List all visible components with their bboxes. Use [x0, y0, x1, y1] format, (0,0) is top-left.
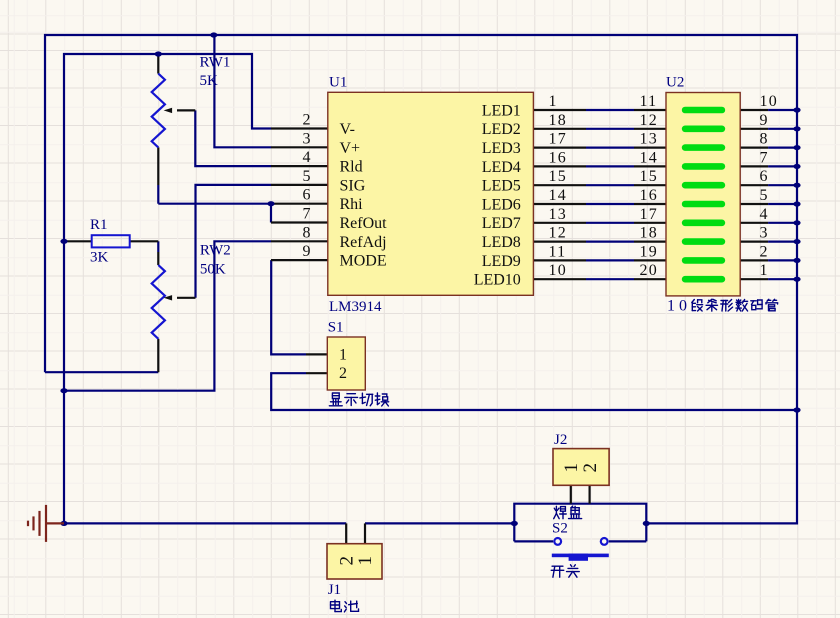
svg-text:LED1: LED1: [482, 102, 521, 119]
svg-text:10: 10: [667, 298, 691, 315]
svg-text:LED3: LED3: [482, 140, 521, 157]
svg-text:4: 4: [760, 206, 769, 223]
svg-text:LED10: LED10: [474, 272, 521, 289]
svg-text:V+: V+: [340, 140, 361, 157]
svg-text:15: 15: [640, 168, 658, 185]
svg-text:18: 18: [640, 225, 658, 242]
svg-text:U1: U1: [329, 75, 347, 91]
svg-text:RW2: RW2: [200, 243, 231, 259]
svg-text:6: 6: [760, 168, 769, 185]
svg-text:7: 7: [303, 206, 311, 223]
svg-text:1: 1: [760, 262, 769, 279]
svg-text:LED6: LED6: [482, 196, 521, 213]
svg-text:2: 2: [339, 365, 347, 382]
svg-text:2: 2: [760, 243, 769, 260]
svg-text:R1: R1: [90, 217, 108, 233]
svg-text:1: 1: [355, 556, 376, 566]
svg-text:5: 5: [303, 168, 311, 185]
svg-text:11: 11: [549, 243, 567, 260]
svg-text:7: 7: [760, 149, 769, 166]
svg-text:19: 19: [640, 243, 658, 260]
svg-text:13: 13: [640, 131, 658, 148]
svg-text:9: 9: [760, 112, 769, 129]
svg-text:10: 10: [760, 93, 778, 110]
svg-text:14: 14: [640, 149, 658, 166]
svg-text:Rhi: Rhi: [340, 196, 364, 213]
svg-text:16: 16: [549, 149, 567, 166]
svg-text:LED2: LED2: [482, 121, 521, 138]
svg-text:3: 3: [760, 225, 769, 242]
svg-text:10: 10: [549, 262, 567, 279]
svg-text:1: 1: [549, 93, 558, 110]
svg-text:LED7: LED7: [482, 215, 521, 232]
svg-text:18: 18: [549, 112, 567, 129]
svg-text:9: 9: [303, 243, 311, 260]
svg-text:S2: S2: [552, 521, 568, 537]
svg-text:RefAdj: RefAdj: [340, 234, 387, 251]
svg-text:8: 8: [303, 224, 311, 241]
svg-text:LM3914: LM3914: [329, 299, 382, 315]
svg-text:LED4: LED4: [482, 159, 521, 176]
svg-text:J1: J1: [328, 582, 341, 598]
svg-text:MODE: MODE: [340, 253, 387, 270]
svg-text:S1: S1: [328, 320, 344, 336]
svg-text:LED8: LED8: [482, 234, 521, 251]
svg-text:Rld: Rld: [340, 159, 363, 176]
svg-text:16: 16: [640, 187, 658, 204]
svg-text:RefOut: RefOut: [340, 215, 388, 232]
svg-text:15: 15: [549, 168, 567, 185]
svg-text:20: 20: [640, 262, 658, 279]
svg-text:50K: 50K: [200, 262, 226, 278]
svg-text:17: 17: [549, 131, 567, 148]
svg-text:3K: 3K: [90, 250, 109, 266]
svg-text:8: 8: [760, 131, 769, 148]
svg-text:LED9: LED9: [482, 253, 521, 270]
svg-text:5K: 5K: [200, 73, 219, 89]
svg-text:LED5: LED5: [482, 178, 521, 195]
svg-text:V-: V-: [340, 121, 355, 138]
svg-text:RW1: RW1: [200, 55, 231, 71]
svg-text:4: 4: [303, 149, 311, 166]
svg-text:17: 17: [640, 206, 658, 223]
svg-text:12: 12: [640, 112, 658, 129]
svg-text:1: 1: [339, 346, 347, 363]
svg-text:13: 13: [549, 206, 567, 223]
svg-text:2: 2: [580, 463, 601, 473]
svg-text:U2: U2: [666, 75, 684, 91]
svg-text:11: 11: [640, 93, 658, 110]
svg-text:14: 14: [549, 187, 567, 204]
svg-text:5: 5: [760, 187, 769, 204]
svg-text:3: 3: [303, 130, 311, 147]
svg-text:J2: J2: [554, 432, 567, 448]
svg-text:6: 6: [303, 187, 311, 204]
svg-text:SIG: SIG: [340, 177, 366, 194]
svg-text:2: 2: [303, 112, 311, 129]
svg-text:12: 12: [549, 225, 567, 242]
